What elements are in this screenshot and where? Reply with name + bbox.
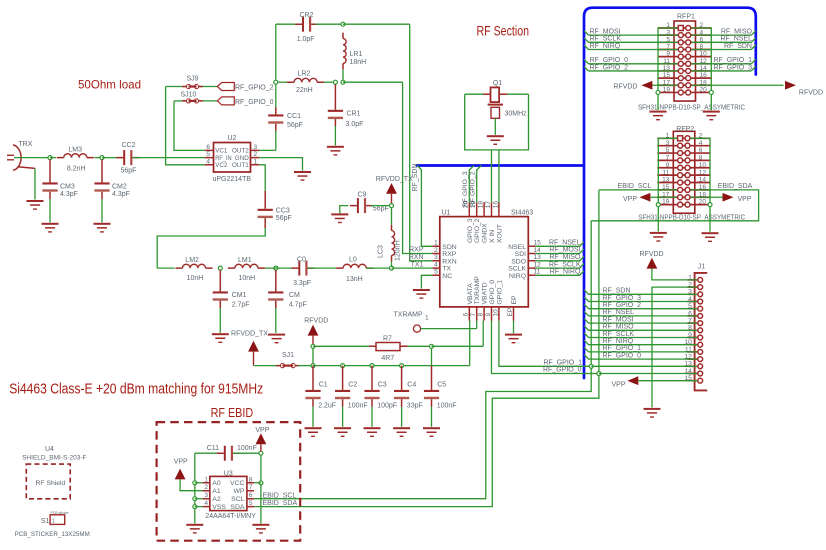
wire RF_NSEL to bus — [536, 242, 584, 247]
svg-text:10: 10 — [492, 309, 499, 317]
svg-text:1: 1 — [425, 315, 429, 322]
svg-text:RXN: RXN — [409, 254, 424, 261]
svg-text:RFP1: RFP1 — [677, 14, 695, 21]
wire RF_MOSI bus hook — [584, 31, 589, 36]
wire U3 A2 stub — [195, 498, 203, 500]
svg-text:4: 4 — [434, 262, 438, 269]
svg-text:VPP: VPP — [623, 196, 637, 203]
sticker S1 body — [50, 515, 65, 525]
pins U1 bottom stubs — [469, 307, 513, 321]
pin C1 bottom — [312, 399, 314, 406]
ground C5 — [423, 427, 440, 437]
svg-text:RF EBID: RF EBID — [211, 406, 254, 420]
svg-text:6: 6 — [700, 36, 704, 43]
svg-text:C0: C0 — [297, 257, 306, 264]
wire RFP1 right gnd bus — [688, 28, 711, 110]
inductor LM3 — [57, 154, 94, 158]
inductor LM1 — [228, 264, 265, 268]
wire RF_NSEL bus hook right — [751, 38, 756, 43]
pin CC1 bottom — [275, 124, 277, 131]
svg-text:VPP: VPP — [255, 427, 269, 434]
wire RFVDD long right — [691, 84, 784, 86]
svg-text:C11: C11 — [207, 445, 219, 452]
svg-text:NIRQ: NIRQ — [509, 273, 526, 280]
junction RFP2 pin19 — [656, 203, 660, 207]
svg-text:RF_MOSI: RF_MOSI — [549, 247, 580, 254]
svg-text:10: 10 — [700, 51, 708, 58]
ground U2 — [294, 171, 311, 181]
svg-text:RFVDD: RFVDD — [304, 318, 328, 325]
svg-text:LM3: LM3 — [68, 147, 82, 154]
svg-text:13: 13 — [663, 65, 671, 72]
junction node B — [100, 156, 104, 160]
wire node to CR2 — [276, 23, 298, 25]
net flag RF_GPIO_2 — [217, 83, 234, 91]
svg-text:uPG2214TB: uPG2214TB — [213, 176, 252, 183]
junction C2 node — [341, 364, 345, 368]
ground U1 EP — [505, 334, 522, 344]
ground C4 — [393, 427, 410, 437]
svg-text:C3: C3 — [378, 382, 387, 389]
power arrow VPP J1 — [627, 376, 638, 385]
ground RFP2 right — [702, 232, 719, 242]
svg-text:2.7pF: 2.7pF — [232, 301, 250, 308]
svg-text:4R7: 4R7 — [381, 355, 394, 362]
pin C5 top — [431, 366, 433, 390]
svg-text:RF_GPIO_0: RF_GPIO_0 — [235, 99, 274, 106]
crystal Q1 body — [483, 87, 507, 102]
svg-text:33pF: 33pF — [407, 403, 423, 410]
pads RFP2 — [678, 136, 690, 207]
svg-text:RFVDD: RFVDD — [613, 83, 637, 90]
inductor L0 — [336, 264, 373, 268]
svg-text:1: 1 — [204, 476, 208, 483]
svg-text:RF_GPIO_0: RF_GPIO_0 — [543, 367, 582, 374]
svg-text:SDN: SDN — [442, 244, 456, 251]
wire RF_SDN RFP1 right — [691, 48, 752, 50]
wire CR2 row left — [275, 24, 277, 80]
svg-text:7: 7 — [249, 484, 253, 491]
ground U3 left — [186, 524, 203, 534]
svg-text:C2: C2 — [348, 382, 357, 389]
svg-text:NC: NC — [442, 273, 452, 280]
svg-text:RF_GPIO_1: RF_GPIO_1 — [603, 345, 642, 352]
svg-text:LM2: LM2 — [185, 257, 199, 264]
wire R7 right — [408, 345, 432, 347]
svg-text:11: 11 — [685, 346, 692, 353]
svg-text:SDA: SDA — [230, 504, 244, 511]
svg-text:15: 15 — [534, 240, 542, 247]
svg-text:6: 6 — [249, 492, 253, 499]
inductor LM2 — [175, 264, 212, 268]
capacitor CR1 — [328, 110, 343, 119]
wire C3 to ground — [371, 407, 373, 427]
svg-text:4: 4 — [204, 500, 208, 507]
wire VBATD drop — [482, 321, 484, 347]
op-amp U2 uPG2214TB body — [214, 143, 251, 173]
wire RFVDD down to C1 — [312, 348, 314, 363]
ground C1 — [305, 427, 322, 437]
ground RFP1 right — [703, 111, 720, 121]
svg-text:100nF: 100nF — [437, 403, 457, 410]
svg-text:19: 19 — [663, 87, 671, 94]
pin C2 top — [342, 366, 344, 390]
svg-text:6: 6 — [688, 310, 692, 317]
wire EBID_SCL to RFP2 — [598, 189, 600, 192]
wire RF_MOSI RFP1 — [589, 34, 679, 36]
svg-text:7: 7 — [666, 44, 670, 51]
junction C4 node — [400, 364, 404, 368]
wire LM3 to node B — [95, 157, 103, 159]
wire R7 left — [313, 345, 369, 347]
wire U2 OUT2 to CC1 node — [259, 149, 276, 151]
ground RFP2 left — [650, 232, 667, 242]
svg-text:3: 3 — [434, 254, 438, 261]
junction RFP2 pin20 — [708, 203, 712, 207]
svg-text:11: 11 — [663, 58, 670, 65]
wire TXRAMP to U1 — [421, 328, 477, 330]
wire C11 right — [233, 452, 261, 454]
capacitor C2 — [335, 390, 350, 399]
svg-text:RXP: RXP — [409, 247, 424, 254]
svg-text:8: 8 — [688, 325, 692, 332]
svg-text:RF Shield: RF Shield — [36, 480, 66, 487]
wire RF_NIRQ RFP1 — [589, 48, 679, 50]
junction U3 A0 — [193, 481, 197, 485]
svg-text:2: 2 — [204, 484, 208, 491]
pin CM3 bottom — [49, 192, 51, 199]
wire CR2 row to right — [343, 23, 410, 25]
svg-text:C9: C9 — [358, 191, 367, 198]
wire C4 to ground — [401, 407, 403, 427]
power arrow RFVDD J1 — [647, 258, 658, 269]
wire V1 EBID_SCL vertical — [254, 221, 591, 499]
junction J1 pin14 node — [597, 372, 601, 376]
svg-text:18: 18 — [478, 201, 485, 209]
wire Q1 left pin — [465, 93, 483, 95]
svg-text:6: 6 — [206, 144, 210, 151]
wire U1 NC to ground — [421, 275, 432, 288]
wire LR2 row to RX column — [343, 81, 403, 83]
svg-text:TX1: TX1 — [411, 261, 424, 268]
svg-text:TX: TX — [442, 266, 451, 273]
connector J1 body — [695, 273, 708, 391]
wire Q1 loop — [465, 94, 529, 150]
svg-text:EP: EP — [511, 295, 518, 305]
wire Q1 shield to ground — [494, 118, 496, 135]
svg-text:14: 14 — [699, 177, 707, 184]
pins U1 left stubs — [433, 246, 440, 275]
svg-text:5: 5 — [666, 36, 670, 43]
pin C3 top — [371, 366, 373, 390]
svg-text:3: 3 — [666, 29, 670, 36]
wire RF_SDN from bus — [417, 166, 432, 247]
svg-text:J1: J1 — [698, 263, 706, 270]
svg-text:GNDX: GNDX — [482, 223, 489, 243]
pins J1 stubs — [688, 280, 699, 381]
wire LR2 to CR1 node — [324, 81, 335, 83]
svg-text:NSEL: NSEL — [508, 244, 526, 251]
svg-text:RFVDD_TX: RFVDD_TX — [231, 331, 268, 338]
wire RF_MISO J1 fan — [584, 326, 698, 331]
ground C9 — [331, 213, 348, 223]
wire CR2 to LR1 top — [316, 23, 344, 25]
wire XIN drop — [491, 150, 493, 202]
svg-text:7: 7 — [688, 318, 692, 325]
wire RF_MOSI J1 fan — [584, 319, 698, 324]
svg-text:2: 2 — [699, 132, 703, 139]
svg-text:3: 3 — [666, 140, 670, 147]
pin CM top — [275, 270, 277, 291]
wire RF_NSEL RFP1 right — [691, 41, 752, 43]
junction LR1 top — [341, 22, 345, 26]
junction LR2 left node — [274, 80, 278, 84]
junction C11 VPP node — [259, 451, 263, 455]
svg-text:RF_SCLK: RF_SCLK — [549, 261, 581, 268]
pin CR1 bottom — [334, 119, 336, 126]
crystal Q1 shield electrode — [488, 105, 503, 119]
wire cap rail — [313, 365, 470, 367]
wire SJ9 left — [166, 86, 186, 88]
svg-text:100nF: 100nF — [237, 445, 257, 452]
svg-text:RF_MISO: RF_MISO — [721, 28, 753, 35]
wire RFP2 left gnd bus — [658, 138, 677, 231]
svg-text:L0: L0 — [349, 257, 357, 264]
wire node B to CC2 — [102, 157, 123, 159]
svg-text:56pF: 56pF — [121, 168, 137, 175]
wire CC2 to U2 RF_IN — [133, 157, 205, 159]
wire RF_GPIO_1 RFP1 right — [691, 63, 752, 65]
capacitor CM — [268, 291, 283, 300]
wire RF_SCLK J1 fan — [584, 333, 698, 338]
power arrow VPP left U3 — [175, 469, 186, 480]
svg-text:3.3pF: 3.3pF — [293, 280, 311, 287]
wire U3 left vertical — [194, 453, 196, 523]
junction J1 pin13 node — [589, 364, 593, 368]
wire CM2 to ground — [101, 199, 103, 222]
svg-text:EBID_SDA: EBID_SDA — [263, 500, 298, 507]
wire CM1 to ground — [219, 308, 221, 333]
svg-text:RF_SCLK: RF_SCLK — [603, 331, 635, 338]
capacitor C4 — [394, 390, 409, 399]
svg-text:1.0pF: 1.0pF — [297, 36, 315, 43]
svg-text:7: 7 — [470, 313, 477, 317]
IC U1 SI4463 body — [440, 217, 529, 307]
svg-text:12: 12 — [699, 169, 707, 176]
svg-text:13nH: 13nH — [346, 276, 363, 283]
power arrow VPP right U3 — [256, 433, 267, 444]
connector TRX — [7, 145, 35, 170]
svg-text:XOUT: XOUT — [496, 224, 503, 243]
svg-text:13: 13 — [684, 361, 692, 368]
svg-text:15: 15 — [663, 72, 671, 79]
junction U3 VSS — [193, 505, 197, 509]
wire SJ10 left — [174, 100, 186, 102]
capacitor C3 — [364, 390, 379, 399]
svg-text:4.3pF: 4.3pF — [112, 191, 130, 198]
svg-text:2: 2 — [254, 151, 258, 158]
wire TRX shield to ground — [34, 168, 36, 199]
wire SJ10 right — [199, 100, 217, 102]
svg-text:9: 9 — [666, 162, 670, 169]
wire row from CC3 corner — [157, 267, 174, 269]
svg-text:10nH: 10nH — [187, 275, 204, 282]
pad RFP1 pin 1 (square) — [678, 26, 683, 31]
svg-text:50Ohm load: 50Ohm load — [78, 78, 141, 92]
junction U3 pin8 — [259, 481, 263, 485]
ground CR1 — [327, 146, 344, 156]
wire V2 EBID_SDA vertical — [254, 191, 599, 507]
wire RXP net — [403, 82, 433, 253]
svg-text:VC1: VC1 — [215, 148, 228, 155]
wire RF_NSEL J1 fan — [584, 311, 698, 316]
wire RF_NIRQ J1 fan — [584, 340, 698, 345]
wire RF_SCLK to bus — [536, 264, 584, 269]
svg-text:5: 5 — [666, 147, 670, 154]
solder jumper SJ10 — [182, 99, 203, 103]
pin C5 bottom — [431, 399, 433, 406]
svg-text:RF_IN: RF_IN — [215, 155, 232, 162]
svg-text:U2: U2 — [228, 135, 237, 142]
svg-text:Si4463 Class-E +20 dBm matchin: Si4463 Class-E +20 dBm matching for 915M… — [9, 381, 263, 397]
svg-text:U1: U1 — [442, 209, 451, 216]
svg-text:GND: GND — [235, 155, 249, 162]
wire to C0 — [265, 267, 292, 269]
junction RFP1 pin20 — [709, 90, 713, 94]
wire C1 to ground — [312, 407, 314, 427]
power arrow RFVDD_TX (bottom) — [248, 341, 259, 352]
wire RF_MISO to bus — [536, 256, 584, 261]
ground J1 — [644, 408, 661, 418]
wire C5 tap — [431, 348, 433, 365]
wire SJ9 right — [199, 86, 217, 88]
junction CM1 node — [218, 266, 222, 270]
wire EBID_SCL row — [599, 189, 679, 191]
svg-text:2: 2 — [688, 282, 692, 289]
svg-text:RF_NSEL: RF_NSEL — [720, 36, 752, 43]
pad RFP2 pin 1 (square) — [678, 136, 683, 141]
svg-text:RF_MISO: RF_MISO — [549, 254, 581, 261]
svg-text:U4: U4 — [45, 446, 54, 453]
wire SJ10 to U2 VC1 — [174, 101, 205, 150]
svg-text:RF_GPIO_1: RF_GPIO_1 — [713, 57, 752, 64]
capacitor C1 — [305, 390, 320, 399]
pads J1 — [698, 278, 703, 384]
inductor LC3 — [392, 225, 395, 262]
pin CC1 top — [275, 108, 277, 115]
svg-text:120nH: 120nH — [394, 240, 401, 261]
svg-text:17: 17 — [663, 79, 671, 86]
svg-text:2: 2 — [434, 247, 438, 254]
junction U3 A2 — [193, 497, 197, 501]
svg-text:C1: C1 — [319, 382, 328, 389]
svg-text:C5: C5 — [437, 382, 446, 389]
wire LR1 to LR2 node — [342, 70, 344, 83]
capacitor CM3 — [42, 182, 57, 191]
wire RFVDD to J1 pin1 — [652, 269, 698, 280]
power arrow RFVDD left — [641, 81, 652, 90]
svg-text:5: 5 — [206, 151, 210, 158]
svg-text:SCLK: SCLK — [508, 266, 526, 273]
svg-text:WP: WP — [233, 488, 244, 495]
svg-text:RF_SDN: RF_SDN — [724, 43, 752, 50]
svg-text:16: 16 — [700, 72, 708, 79]
svg-text:RFVDD: RFVDD — [640, 251, 664, 258]
wire C2 to ground — [342, 407, 344, 427]
resistor R7 — [376, 343, 400, 351]
wire RXN net — [410, 24, 433, 261]
svg-text:OUT1: OUT1 — [232, 162, 249, 169]
svg-text:9: 9 — [485, 313, 492, 317]
wire RF_SCLK bus hook — [584, 38, 589, 43]
wire CR1 to ground — [334, 126, 336, 145]
svg-text:RXP: RXP — [442, 251, 456, 258]
wire VBAT rail right — [432, 345, 484, 347]
svg-text:RF_SCLK: RF_SCLK — [590, 36, 622, 43]
svg-text:100pF: 100pF — [377, 403, 397, 410]
wire CC3 to LM2 row — [157, 228, 265, 268]
wire RF_MOSI to bus — [536, 249, 584, 254]
capacitor CR2 — [295, 17, 318, 32]
svg-text:VPP: VPP — [174, 459, 188, 466]
junction C1 node — [311, 364, 315, 368]
svg-text:4: 4 — [699, 140, 703, 147]
pin CR1 top — [334, 103, 336, 110]
wire RF_NIRQ bus hook — [584, 45, 589, 50]
svg-text:10nH: 10nH — [239, 275, 256, 282]
svg-text:A2: A2 — [212, 496, 221, 503]
wire CM3 to ground — [49, 199, 51, 222]
wire EP to ground — [513, 321, 515, 334]
svg-text:CC3: CC3 — [276, 207, 290, 214]
svg-text:RFVDD_TX: RFVDD_TX — [376, 176, 413, 183]
wire RF_SDN J1 fan — [584, 290, 698, 295]
svg-text:3: 3 — [254, 144, 258, 151]
pin C4 top — [401, 366, 403, 390]
svg-text:VPP: VPP — [611, 381, 625, 388]
wire TX node to U1 TX — [392, 267, 433, 269]
svg-text:CM: CM — [289, 292, 300, 299]
svg-text:RFP2: RFP2 — [676, 126, 694, 133]
svg-text:RF_NIRQ: RF_NIRQ — [550, 269, 581, 276]
svg-text:14: 14 — [534, 247, 542, 254]
svg-text:14: 14 — [700, 65, 708, 72]
wire J1 pin13 — [591, 365, 698, 367]
svg-text:LC3: LC3 — [378, 245, 385, 258]
svg-text:RXN: RXN — [442, 258, 456, 265]
solder jumper SJ1 — [276, 364, 299, 368]
svg-text:CM3: CM3 — [60, 184, 75, 191]
svg-text:RFVDD: RFVDD — [799, 89, 823, 96]
wire VBATA drop — [469, 321, 471, 347]
wire LC3 bottom joint — [391, 262, 393, 269]
svg-text:RF_MISO: RF_MISO — [603, 324, 635, 331]
wire RF_GPIO_3 bus hook right — [751, 66, 756, 71]
ground Q1 — [487, 135, 504, 145]
svg-text:4: 4 — [700, 29, 704, 36]
pads RFP1 — [678, 26, 690, 95]
wire VPP to J1 pin15 — [638, 380, 698, 382]
inductor LR1 — [343, 33, 346, 70]
wire SJ1 to C1 node — [298, 365, 313, 367]
wire RF_SCLK RFP1 — [589, 41, 679, 43]
ground U3 right — [252, 524, 269, 534]
svg-text:CR2: CR2 — [300, 12, 314, 19]
wire SJ9 to U2 VC2 — [166, 87, 205, 165]
wire RFVDD_TX stem — [253, 352, 255, 366]
svg-text:1: 1 — [666, 132, 670, 139]
capacitor CM2 — [94, 182, 109, 191]
